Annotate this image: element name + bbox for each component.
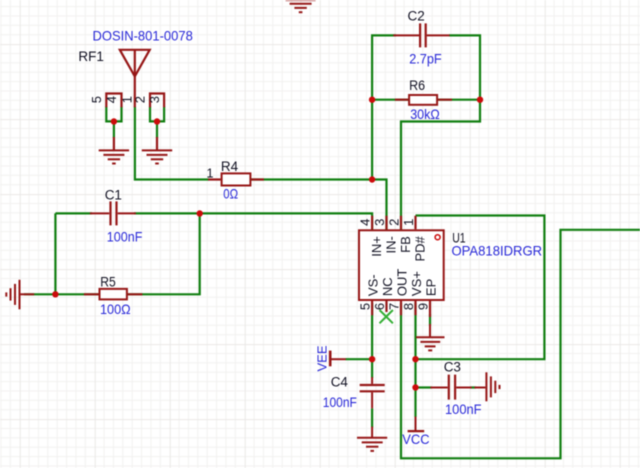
svg-text:VEE: VEE [314,345,329,371]
svg-text:NC: NC [380,277,395,296]
svg-text:U1: U1 [452,230,465,245]
svg-text:4: 4 [104,96,119,103]
svg-text:100nF: 100nF [323,394,357,410]
svg-text:9: 9 [416,303,431,310]
svg-text:R4: R4 [221,159,239,174]
svg-text:IN-: IN- [384,236,399,253]
svg-text:EP: EP [424,279,439,296]
svg-text:3: 3 [372,219,387,226]
svg-text:R6: R6 [409,78,425,93]
svg-text:100nF: 100nF [445,401,482,417]
svg-text:C2: C2 [408,9,425,24]
svg-text:2: 2 [132,96,147,103]
svg-text:C1: C1 [105,187,122,202]
svg-text:7: 7 [387,303,402,310]
svg-text:0Ω: 0Ω [223,185,238,201]
svg-text:3: 3 [147,96,162,103]
svg-text:PD#: PD# [413,235,428,261]
svg-text:5: 5 [89,96,104,103]
svg-text:DOSIN-801-0078: DOSIN-801-0078 [93,27,193,43]
svg-text:30kΩ: 30kΩ [410,106,440,122]
svg-text:100nF: 100nF [107,229,143,245]
svg-text:OUT: OUT [395,269,410,297]
svg-text:4: 4 [358,219,373,226]
svg-text:2: 2 [387,219,402,226]
svg-text:C3: C3 [444,359,461,374]
svg-text:C4: C4 [331,374,349,389]
svg-text:1: 1 [207,166,214,180]
svg-text:5: 5 [358,303,373,310]
svg-text:8: 8 [401,303,416,310]
svg-text:6: 6 [372,303,387,310]
svg-text:100Ω: 100Ω [100,301,131,317]
svg-text:R5: R5 [100,275,116,290]
svg-text:VCC: VCC [402,431,429,447]
svg-text:RF1: RF1 [78,49,104,64]
svg-text:IN+: IN+ [369,236,384,257]
svg-text:VS-: VS- [366,274,381,296]
svg-text:1: 1 [401,219,416,226]
svg-text:VS+: VS+ [409,271,424,296]
svg-text:2.7pF: 2.7pF [409,50,442,66]
svg-text:FB: FB [398,236,413,253]
